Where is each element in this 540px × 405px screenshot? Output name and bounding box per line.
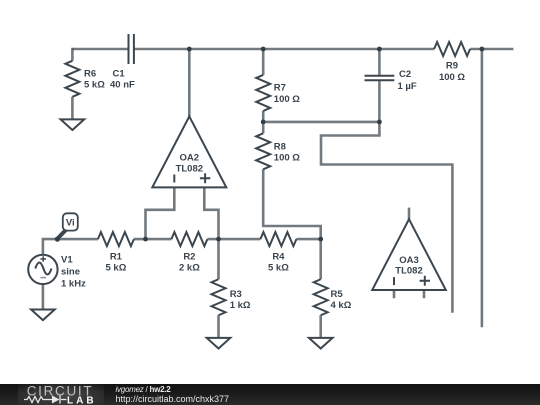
svg-text:1 µF: 1 µF: [398, 81, 417, 92]
svg-text:5 kΩ: 5 kΩ: [268, 262, 289, 273]
svg-text:C1: C1: [113, 69, 126, 80]
svg-text:R2: R2: [183, 251, 195, 262]
svg-text:http://circuitlab.com/chxk377: http://circuitlab.com/chxk377: [116, 394, 230, 404]
svg-text:ivgomez / hw2.2: ivgomez / hw2.2: [116, 385, 172, 394]
svg-text:1 kΩ: 1 kΩ: [230, 300, 251, 311]
svg-text:TL082: TL082: [176, 163, 203, 174]
svg-text:100 Ω: 100 Ω: [274, 153, 300, 164]
svg-text:R6: R6: [84, 69, 96, 80]
svg-text:sine: sine: [61, 266, 80, 277]
svg-text:5 kΩ: 5 kΩ: [84, 80, 105, 91]
svg-text:LAB: LAB: [67, 395, 97, 405]
svg-text:4 kΩ: 4 kΩ: [331, 300, 352, 311]
svg-text:C2: C2: [399, 69, 411, 80]
svg-text:TL082: TL082: [395, 266, 422, 277]
svg-text:R5: R5: [331, 289, 344, 300]
svg-text:100 Ω: 100 Ω: [274, 94, 300, 105]
svg-text:2 kΩ: 2 kΩ: [179, 262, 200, 273]
svg-text:5 kΩ: 5 kΩ: [105, 262, 126, 273]
svg-text:OA3: OA3: [399, 255, 419, 266]
svg-text:R8: R8: [274, 141, 286, 152]
svg-text:V1: V1: [61, 254, 73, 265]
svg-text:R9: R9: [446, 61, 458, 72]
svg-text:R1: R1: [110, 251, 123, 262]
svg-text:OA2: OA2: [180, 153, 200, 164]
svg-text:1 kHz: 1 kHz: [61, 279, 86, 290]
svg-text:R4: R4: [272, 251, 285, 262]
svg-text:R3: R3: [230, 289, 242, 300]
svg-text:Vi: Vi: [66, 218, 75, 229]
svg-text:100 Ω: 100 Ω: [439, 72, 465, 83]
svg-text:R7: R7: [274, 83, 286, 94]
svg-text:40 nF: 40 nF: [110, 80, 135, 91]
